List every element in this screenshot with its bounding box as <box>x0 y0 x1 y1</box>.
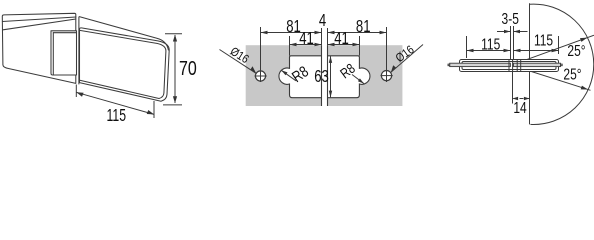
svg-text:4: 4 <box>319 11 327 30</box>
svg-text:70: 70 <box>179 56 197 79</box>
svg-text:41: 41 <box>334 29 349 48</box>
svg-text:3-5: 3-5 <box>502 9 519 27</box>
svg-text:25°: 25° <box>567 41 585 59</box>
svg-text:115: 115 <box>481 35 500 53</box>
svg-text:63: 63 <box>314 67 329 86</box>
svg-text:81: 81 <box>356 17 371 36</box>
svg-text:115: 115 <box>534 31 553 49</box>
svg-text:41: 41 <box>299 29 314 48</box>
svg-text:25°: 25° <box>563 65 581 83</box>
svg-text:14: 14 <box>513 98 526 116</box>
svg-text:115: 115 <box>107 106 126 126</box>
